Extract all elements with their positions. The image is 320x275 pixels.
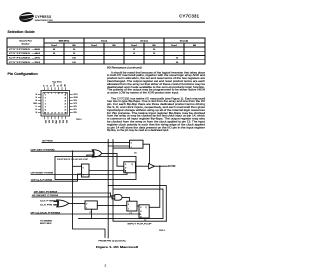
svg-text:Com’l: Com’l (91, 45, 97, 47)
svg-text:1: 1 (131, 147, 132, 149)
xor gate G1 (output register D path) (92, 150, 102, 157)
xor gate G2 (input clock select) (57, 200, 69, 207)
wire clk tap to M0 (113, 147, 130, 149)
svg-text:CY7C331 –20: CY7C331 –20 (9, 62, 42, 64)
svg-text:10: 10 (44, 109, 46, 111)
svg-text:OE PTERM: OE PTERM (42, 141, 53, 143)
svg-text:15: 15 (54, 113, 56, 115)
svg-text:I/P SET PTERM: I/P SET PTERM (34, 191, 57, 193)
svg-text:0: 0 (86, 203, 87, 205)
svg-text:Mil: Mil (153, 45, 156, 47)
wire M3 to input register (137, 205, 139, 207)
wire xor G2 input A (54, 201, 57, 203)
svg-text:CY7C331 –25: CY7C331 –25 (9, 58, 42, 60)
wire feedback loop upper (108, 186, 166, 222)
wire clock bus pin 14 (107, 140, 109, 239)
cypress logo mark (18, 11, 36, 23)
svg-text:17: 17 (61, 113, 63, 115)
svg-text:I/O2: I/O2 (51, 120, 53, 123)
svg-text:I/O6: I/O6 (74, 112, 77, 114)
svg-text:13: 13 (47, 113, 49, 115)
svg-text:11: 11 (45, 112, 47, 114)
svg-text:I8: I8 (36, 109, 37, 111)
svg-text:27: 27 (61, 93, 63, 95)
svg-text:I/O1: I/O1 (47, 120, 49, 123)
svg-text:TO SHARED: TO SHARED (40, 220, 53, 223)
svg-text:I/O Resources (continued): I/O Resources (continued) (107, 65, 142, 69)
wire feedback loop lower (79, 189, 164, 219)
right pin stubs (70, 95, 73, 113)
svg-text:CY7C331: CY7C331 (179, 14, 199, 19)
label I/P CLOCK PTERM (31, 212, 61, 214)
svg-text:I/O PIN: I/O PIN (168, 166, 176, 168)
bottom pin stubs (45, 116, 66, 119)
svg-text:I/P RESET PTERM: I/P RESET PTERM (32, 195, 58, 197)
svg-text:9: 9 (45, 106, 46, 108)
svg-text:Mil: Mil (113, 45, 116, 47)
svg-text:25: 25 (64, 94, 66, 96)
svg-text:19: 19 (64, 112, 66, 114)
svg-text:Com’l: Com’l (131, 45, 137, 47)
label I/O PIN (168, 166, 176, 168)
clock mux M1 (82, 164, 90, 177)
wire O/P RESET PTERM (31, 173, 127, 175)
svg-text:I9: I9 (36, 112, 37, 114)
svg-text:INPUT FLIP-FLOP: INPUT FLIP-FLOP (128, 223, 153, 225)
svg-text:I6: I6 (36, 100, 37, 102)
svg-text:14: 14 (51, 113, 53, 115)
right labels (74, 94, 78, 114)
svg-text:Pin Configuration: Pin Configuration (8, 72, 38, 76)
output buffer tri-state (149, 164, 155, 169)
svg-text:flip-flop, so the pin may be u: flip-flop, so the pin may be used as a d… (107, 128, 169, 132)
svg-text:I5: I5 (36, 97, 37, 99)
svg-text:I/O10: I/O10 (74, 97, 78, 99)
wire O/P SET PTERM (31, 150, 93, 152)
svg-text:I/O0: I/O0 (44, 120, 46, 123)
svg-text:I11: I11 (61, 84, 63, 86)
label INPUT FLIP-FLOP (128, 223, 153, 225)
label CLK PIN 14 (xor input B) (40, 204, 58, 206)
label CLK PTERM (xor input A) (40, 201, 57, 203)
wire O/P CLOCK PTERM (31, 174, 82, 181)
svg-text:I/P CLOCK PTERM: I/P CLOCK PTERM (31, 212, 61, 214)
wire xor G1 output to FF D input (102, 153, 124, 166)
inner pin numbers (44, 93, 67, 115)
input register U2 (139, 205, 149, 219)
svg-text:Top View: Top View (52, 81, 62, 83)
svg-text:FROM PIN 14 (CLOCK): FROM PIN 14 (CLOCK) (99, 240, 126, 242)
wire buffer to I/O pin (154, 165, 167, 167)
svg-text:22: 22 (64, 103, 66, 105)
wire OE PTERM (42, 141, 130, 143)
label OUTPUT FLIP-FLOP (57, 159, 89, 161)
node junction on set pterm (72, 150, 74, 152)
label OE PTERM (42, 141, 53, 143)
wire M1 input A (73, 165, 82, 167)
bottom rotated labels (44, 120, 67, 125)
svg-text:CY7C331 –40: CY7C331 –40 (9, 53, 42, 55)
svg-text:6: 6 (45, 97, 46, 99)
svg-text:I3: I3 (44, 85, 46, 86)
svg-text:C331-2: C331-2 (76, 119, 82, 121)
wire G2 output to mux M2 (69, 202, 85, 204)
svg-text:CYPRESS: CYPRESS (35, 15, 52, 19)
svg-text:Figure 1. I/O Macrocell: Figure 1. I/O Macrocell (96, 245, 138, 249)
svg-text:I/O9: I/O9 (74, 100, 77, 102)
header rule (48, 22, 206, 23)
svg-text:0: 0 (128, 204, 129, 206)
svg-text:I4: I4 (36, 94, 37, 96)
svg-text:C0: C0 (134, 153, 136, 155)
wire xor G2 input B (54, 204, 57, 206)
svg-text:I/O4: I/O4 (61, 120, 63, 123)
svg-text:21: 21 (64, 106, 66, 108)
output flip-flop group box (55, 156, 136, 179)
svg-text:I/O3: I/O3 (58, 120, 60, 123)
svg-text:1: 1 (128, 208, 129, 210)
label I/P SET PTERM (34, 191, 57, 193)
label O/P SET PTERM (31, 149, 55, 151)
svg-text:7: 7 (45, 100, 46, 102)
svg-text:Com’l: Com’l (51, 45, 57, 47)
oe mux M0 (130, 140, 144, 148)
wire global OE to M0 (108, 145, 129, 147)
svg-text:28: 28 (58, 93, 60, 95)
svg-text:20: 20 (64, 109, 66, 111)
wire I/P CLOCK PTERM (31, 213, 139, 215)
output register U1 (124, 162, 136, 174)
svg-text:1: 1 (86, 207, 87, 209)
svg-text:or active LOW by means of the: or active LOW by means of the XOR produc… (107, 91, 179, 95)
svg-text:Generic Part: Generic Part (19, 40, 32, 43)
svg-text:I2: I2 (47, 85, 49, 86)
svg-text:C1: C1 (144, 220, 146, 222)
wire clock bus pin 13 (113, 140, 166, 222)
input mux M3 (127, 201, 137, 211)
svg-text:I/O7: I/O7 (74, 109, 77, 111)
shared input mux M2 (85, 201, 97, 210)
top pin stubs (45, 87, 66, 90)
wire M1 output to FF clock (89, 170, 124, 172)
wire pin feedback to input register (149, 166, 160, 207)
chip body (41, 91, 70, 117)
svg-text:16: 16 (58, 113, 60, 115)
svg-text:I10: I10 (65, 84, 67, 86)
svg-text:I/O8: I/O8 (74, 106, 77, 108)
svg-text:Mil: Mil (73, 45, 76, 47)
svg-text:0: 0 (83, 167, 84, 169)
svg-text:C331-2: C331-2 (159, 230, 165, 232)
label I/P RESET PTERM (32, 195, 58, 197)
left pin stubs (38, 95, 41, 113)
svg-text:Com’l: Com’l (171, 45, 177, 47)
svg-text:O/P RESET PTERM: O/P RESET PTERM (31, 173, 54, 175)
label O/P CLOCK PTERM (31, 180, 52, 182)
svg-text:I1: I1 (51, 85, 53, 86)
svg-text:INPUT MUX: INPUT MUX (40, 223, 52, 225)
svg-text:CY7C331 –66: CY7C331 –66 (9, 49, 42, 51)
label figure tag C331-2 (159, 230, 165, 232)
label C1 (144, 220, 146, 222)
wire junction drop to adjacent-macrocell path (73, 151, 106, 237)
wire xor G1 lower input stub from box (87, 155, 94, 156)
figure caption (96, 245, 138, 249)
wire G3 output to mux M3 (122, 197, 129, 201)
wire M0 output to buffer enable (143, 144, 150, 164)
svg-text:Selection Guide: Selection Guide (8, 30, 35, 34)
svg-text:tS (ns): tS (ns) (101, 39, 107, 42)
label TO SHARED INPUT MUX (40, 220, 53, 226)
node pin feedback junction (159, 165, 161, 167)
svg-text:23: 23 (64, 100, 66, 102)
svg-text:I0: I0 (58, 85, 60, 86)
label C2 (90, 212, 92, 214)
wire M2 output to mux M3 (97, 205, 127, 207)
top rotated labels (44, 82, 67, 86)
label C3 (130, 213, 132, 215)
svg-text:0: 0 (131, 143, 132, 145)
label C0 (134, 153, 136, 155)
svg-text:I/O11: I/O11 (74, 94, 78, 96)
wire I/P SET PTERM (34, 193, 115, 196)
svg-text:I7: I7 (36, 106, 37, 108)
wire I/P RESET PTERM (32, 197, 115, 199)
svg-text:24: 24 (64, 97, 66, 99)
svg-text:OUTPUT FLIP-FLOP: OUTPUT FLIP-FLOP (57, 159, 89, 161)
wire M2 select (90, 209, 92, 218)
inner side pin numbers (44, 94, 66, 114)
svg-text:I/O5: I/O5 (65, 120, 67, 123)
left labels (33, 94, 38, 114)
svg-text:O/P SET PTERM: O/P SET PTERM (31, 149, 55, 151)
svg-text:8: 8 (45, 103, 46, 105)
svg-text:5: 5 (45, 94, 46, 96)
label O/P RESET PTERM (31, 173, 54, 175)
wire FF Q to buffer (136, 165, 149, 167)
svg-text:O/P CLK PTERM: O/P CLK PTERM (31, 180, 52, 182)
svg-text:Mil: Mil (193, 45, 196, 47)
label FROM PIN 14 (CLOCK) (99, 240, 126, 242)
and gate G3 (115, 195, 122, 201)
svg-text:Number: Number (22, 43, 30, 46)
